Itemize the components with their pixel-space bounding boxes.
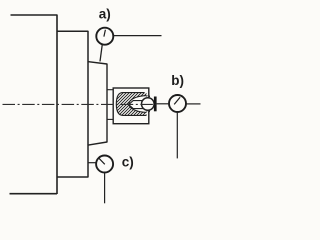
centerline [3,103,157,105]
indicator b plunger to bar [157,103,169,105]
indicator c needle [99,158,105,164]
spindle nose bottom edge [88,142,108,145]
test ball [142,98,155,111]
svg-text:b): b) [171,73,184,88]
svg-text:c): c) [122,154,134,169]
center stub [129,101,143,109]
indicator c plunger to face [89,162,97,164]
spindle neck bottom line [107,118,113,120]
svg-text:a): a) [99,6,111,21]
indicator c mount stem down [104,173,106,204]
indicator a needle [104,30,106,37]
spindle nose top edge [88,62,108,64]
hatched cup section [116,93,150,116]
dial indicator a) [96,28,113,45]
headstock front step bottom edge [57,176,88,178]
indicator b needle [174,97,180,104]
indicator a mount stem [114,35,162,37]
headstock rear block top edge [11,14,58,16]
spindle neck top line [107,89,113,91]
dial indicator b) [169,95,186,112]
headstock front step top edge [57,30,88,32]
dial indicator c) [96,156,113,173]
headstock rear block right edge [56,15,58,195]
indicator b mount stem down [176,112,178,158]
indicator b mount stem right [186,103,200,105]
cup section outline [116,93,146,116]
indicator a feeler [100,45,102,61]
cup cavity outline [129,96,147,113]
spindle nose front face [106,64,108,143]
headstock rear block bottom edge [10,193,58,195]
headstock front step right face [87,31,89,178]
contact bar [154,97,157,112]
test cup body [113,88,149,124]
